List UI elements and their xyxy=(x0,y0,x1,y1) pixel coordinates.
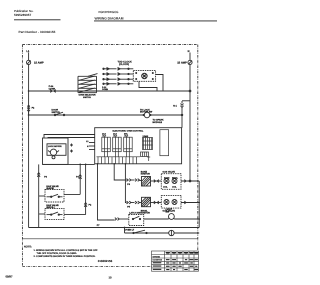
svg-text:DIAGRAM: DIAGRAM xyxy=(153,259,163,262)
svg-text:THE OFF POSITION, DOOR CLOSED.: THE OFF POSITION, DOOR CLOSED. xyxy=(37,252,78,255)
svg-text:(BAKE): (BAKE) xyxy=(46,187,54,190)
svg-text:09/97: 09/97 xyxy=(6,275,13,279)
svg-text:IGNITOR: IGNITOR xyxy=(141,173,150,176)
svg-text:BROIL: BROIL xyxy=(172,177,179,180)
svg-text:MODULE: MODULE xyxy=(153,121,163,124)
svg-text:SWITCH: SWITCH xyxy=(52,111,61,114)
svg-text:LOCK MOTOR: LOCK MOTOR xyxy=(48,145,62,148)
svg-text:CONN: CONN xyxy=(102,88,108,91)
svg-text:FGF376WGCG: FGF376WGCG xyxy=(99,10,120,14)
svg-text:15 AMP: 15 AMP xyxy=(34,62,44,65)
svg-text:2. COMPONENTS SHOWN IN THEIR N: 2. COMPONENTS SHOWN IN THEIR NORMAL POSI… xyxy=(34,255,96,258)
svg-text:OVEN LT: OVEN LT xyxy=(125,229,135,232)
svg-text:15 AMP: 15 AMP xyxy=(177,62,187,65)
svg-text:GAS VALVE: GAS VALVE xyxy=(163,170,176,173)
svg-text:Part Number - 316002155: Part Number - 316002155 xyxy=(19,30,56,34)
svg-text:1. WIRING SHOWN WITH ALL CONTR: 1. WIRING SHOWN WITH ALL CONTROLS SET IN… xyxy=(34,249,99,252)
svg-text:XFMR: XFMR xyxy=(143,135,149,138)
svg-text:WIRING DIAGRAM: WIRING DIAGRAM xyxy=(95,16,124,20)
svg-text:10: 10 xyxy=(109,275,113,279)
svg-text:IGNITOR: IGNITOR xyxy=(141,212,150,215)
svg-text:316002156: 316002156 xyxy=(98,259,113,263)
svg-text:BAKE: BAKE xyxy=(164,177,170,180)
svg-text:MOTOR SW: MOTOR SW xyxy=(140,111,153,114)
svg-text:LATCH SW: LATCH SW xyxy=(129,211,141,214)
svg-text:WIRING: WIRING xyxy=(153,256,161,259)
svg-text:5995289957: 5995289957 xyxy=(14,13,31,17)
svg-text:(BROIL): (BROIL) xyxy=(46,206,55,209)
svg-text:SWITCH: SWITCH xyxy=(83,96,91,99)
svg-text:N: N xyxy=(188,50,190,53)
svg-text:NOTE:: NOTE: xyxy=(24,246,32,249)
svg-text:CONN: CONN xyxy=(49,88,56,91)
svg-text:ELECTRONIC OVEN CONTROL: ELECTRONIC OVEN CONTROL xyxy=(113,129,145,132)
svg-text:(CLOCK): (CLOCK) xyxy=(119,63,129,66)
